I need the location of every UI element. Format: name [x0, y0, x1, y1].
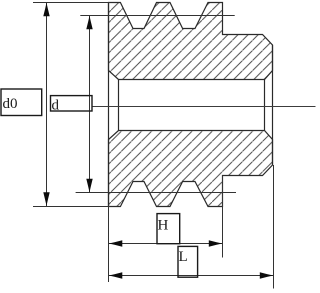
svg-text:H: H: [158, 217, 169, 233]
svg-text:d0: d0: [3, 96, 18, 112]
svg-text:L: L: [179, 249, 188, 265]
svg-text:d: d: [52, 98, 60, 114]
